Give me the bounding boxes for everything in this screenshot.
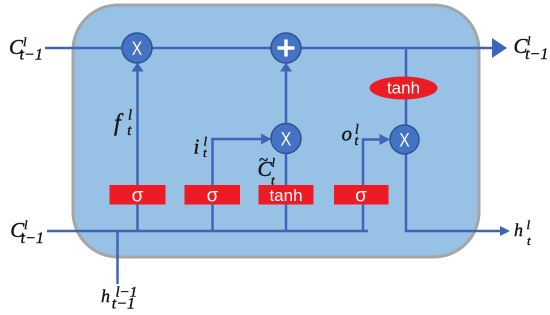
sigma box 1 (forget gate) bbox=[110, 185, 166, 207]
tanh ellipse (cell-state activation) bbox=[370, 77, 438, 100]
add gate + bbox=[271, 33, 301, 63]
wire: bottom hidden-state line (left segment) bbox=[47, 230, 368, 233]
multiply gate X1 (forget) bbox=[122, 33, 152, 63]
svg-text:tanh: tanh bbox=[387, 79, 420, 98]
multiply gate X3 (output) bbox=[390, 125, 419, 154]
LSTM cell body (rounded rectangle) bbox=[73, 5, 479, 257]
wire: X2 output up to add gate bbox=[285, 68, 288, 126]
svg-text:X: X bbox=[399, 131, 410, 152]
svg-text:Clt−1: Clt−1 bbox=[514, 33, 549, 63]
sigma box 2 (input gate) bbox=[185, 185, 241, 207]
arrowhead: into multiply gate X3 bbox=[380, 134, 391, 145]
wire: cell-state tap down through tanh to X3 and out as h_t bbox=[406, 48, 500, 231]
arrowhead: h_t output bbox=[500, 226, 510, 236]
wire: top cell-state line C_{t-1} bbox=[45, 47, 493, 50]
wire: input-gate vertical + elbow line bbox=[213, 139, 264, 231]
svg-text:σ: σ bbox=[207, 186, 219, 207]
arrowhead: top-right cell-state output bbox=[492, 38, 507, 58]
svg-text:X: X bbox=[132, 39, 143, 60]
svg-text:tanh: tanh bbox=[269, 186, 302, 205]
tanh box (candidate) bbox=[259, 185, 314, 205]
arrowhead: into add gate bbox=[280, 63, 292, 72]
arrowhead: into multiply gate X2 bbox=[261, 134, 272, 145]
wire: h_{t-1} input drop line bbox=[116, 231, 119, 284]
wire: output-gate vertical + elbow line bbox=[363, 140, 380, 232]
svg-text:X: X bbox=[281, 130, 292, 151]
wire: forget-gate vertical line bbox=[136, 67, 139, 231]
svg-text:Clt−1: Clt−1 bbox=[10, 217, 44, 247]
svg-text:hlt: hlt bbox=[514, 217, 531, 248]
svg-text:σ: σ bbox=[355, 186, 367, 207]
wire: candidate vertical line (tanh box to X2) bbox=[285, 150, 288, 231]
arrowhead: into multiply gate X1 bbox=[132, 63, 144, 72]
svg-text:hl−1t−1: hl−1t−1 bbox=[101, 285, 137, 313]
svg-text:olt: olt bbox=[342, 121, 360, 148]
svg-text:σ: σ bbox=[132, 186, 144, 207]
multiply gate X2 (input x candidate) bbox=[271, 124, 301, 154]
sigma box 3 (output gate) bbox=[334, 185, 389, 207]
svg-text:Clt−1: Clt−1 bbox=[9, 34, 43, 64]
